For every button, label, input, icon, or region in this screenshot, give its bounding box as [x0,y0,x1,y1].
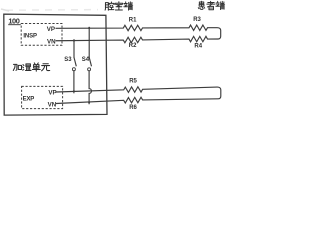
svg-text:INSP: INSP [23,33,37,39]
EXP module dashed box [22,86,63,108]
label patient end (top right) [198,1,204,9]
svg-text:R6: R6 [129,105,137,111]
switch S4 blade [89,57,91,66]
switch S4 vertical lower with hop over bottom VP wire, to bottom VN wire [89,71,91,104]
svg-text:S3: S3 [64,57,72,63]
svg-text:R2: R2 [129,43,137,49]
humidifier unit outer box 100 [4,14,107,115]
svg-text:VP: VP [48,89,56,96]
junction dot S3/VN [73,40,75,42]
svg-text:R4: R4 [194,43,202,49]
junction dot S4/VN bottom [88,101,90,103]
svg-text:EXP: EXP [23,96,35,102]
faint scan artifact line [6,9,98,12]
label chamber end (top middle) [105,2,114,10]
INSP module dashed box [21,24,62,46]
switch S4 vertical wire upper (from VP top wire, crossing VN wire) [88,27,90,58]
svg-text:R3: R3 [193,17,201,23]
switch S4 contact circle [88,68,91,71]
switch S3 vertical wire upper [73,39,75,57]
svg-text:VP: VP [47,26,55,33]
switch S3 vertical wire lower [73,71,75,94]
wire VP top + resistors R1 R3 loop R4 R2 + wire VN top [56,25,221,43]
svg-text:100: 100 [8,16,19,25]
wire VP bottom + resistor R5 loop R6 + wire VN bottom [56,87,221,104]
switch S3 contact circle [72,68,75,71]
svg-text:R5: R5 [129,79,137,85]
svg-text:VN: VN [48,102,57,109]
svg-text:R1: R1 [129,18,137,24]
svg-text:VN: VN [47,39,56,46]
svg-text:S4: S4 [82,57,90,63]
junction dot S4/VP top [88,27,90,29]
label humidification unit (inside box) [13,64,21,70]
switch S3 blade [74,57,76,66]
junction dot S3/VP bottom [73,90,75,92]
